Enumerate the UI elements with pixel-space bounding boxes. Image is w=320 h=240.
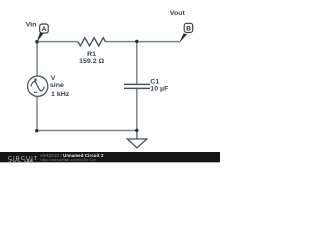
svg-text:V: V [51,76,56,82]
svg-text:1 kHz: 1 kHz [51,91,70,97]
svg-text:CIRCUIT: CIRCUIT [8,156,39,162]
svg-text:R1: R1 [87,52,96,58]
svg-text:Vin: Vin [26,22,37,28]
watermark logo LAB line [9,160,21,161]
svg-text:Vout: Vout [170,11,186,17]
wire: right vertical (top junction to C1 top plate) [136,42,138,85]
voltage source V1 [28,76,48,96]
junction: bottom T at ground [135,129,138,132]
wire: top rail right segment (R1 right lead to node B stub) [106,41,180,43]
wire: ground stub below bottom junction [136,131,138,140]
svg-text:http://circuitlab.com/c/5x71e: http://circuitlab.com/c/5x71e [40,157,96,162]
svg-text:C1: C1 [150,79,159,85]
wire: left vertical (corner down to V1 top) [36,42,38,77]
wire: left vertical (V1 bottom to bottom rail) [36,96,38,130]
watermark footer bar [0,152,220,162]
svg-text:sine: sine [50,83,64,89]
node A flag tail [37,33,44,42]
ground [127,139,147,148]
node A box [40,24,49,33]
junction: bottom left corner [35,129,38,132]
svg-text:10 µF: 10 µF [150,86,168,92]
svg-text:159.2 Ω: 159.2 Ω [79,58,104,64]
capacitor C1 [124,84,150,88]
wire: right vertical (C1 bottom plate to bottom junction) [136,88,138,130]
node B box [184,23,193,32]
wire: bottom rail [37,130,137,132]
junction: top T at C1 branch [135,40,138,43]
svg-text:B: B [186,25,191,32]
junction: top corner at node A [35,40,38,43]
wire: top rail left segment (node A corner to R1 left lead) [37,41,78,43]
resistor R1 [78,38,106,46]
node B flag tail [179,34,187,43]
svg-text:LAB: LAB [25,159,34,163]
svg-text:A: A [42,26,47,33]
